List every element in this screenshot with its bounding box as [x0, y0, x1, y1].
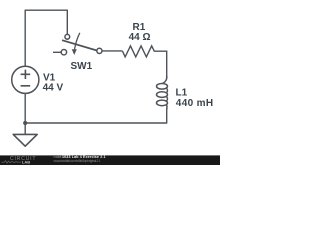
- svg-text:LAB: LAB: [22, 159, 31, 164]
- svg-text:44 V: 44 V: [43, 83, 64, 94]
- svg-text:L1: L1: [176, 87, 188, 98]
- svg-text:440 mH: 440 mH: [176, 98, 214, 109]
- svg-text:SW1: SW1: [71, 61, 93, 72]
- svg-text:www.circuitlab.com/c/8rs3vp/or: www.circuitlab.com/c/8rs3vp/original-2.1: [54, 159, 101, 163]
- svg-text:44 Ω: 44 Ω: [129, 32, 151, 43]
